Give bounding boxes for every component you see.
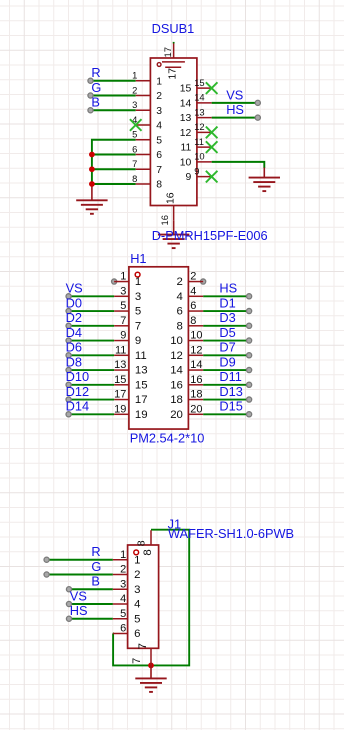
svg-text:7: 7 <box>131 658 143 664</box>
svg-text:16: 16 <box>190 374 202 386</box>
svg-text:14: 14 <box>180 98 192 109</box>
svg-text:10: 10 <box>194 151 204 162</box>
svg-text:D10: D10 <box>66 369 89 384</box>
svg-text:3: 3 <box>135 291 141 303</box>
svg-text:D11: D11 <box>219 369 242 384</box>
svg-text:1: 1 <box>132 70 137 81</box>
svg-text:14: 14 <box>194 92 204 103</box>
svg-text:17: 17 <box>114 389 126 401</box>
svg-text:3: 3 <box>134 584 140 596</box>
svg-text:D12: D12 <box>66 384 89 399</box>
svg-text:6: 6 <box>156 150 162 161</box>
svg-text:14: 14 <box>170 365 183 377</box>
svg-text:16: 16 <box>170 379 183 391</box>
svg-text:10: 10 <box>190 330 202 342</box>
svg-text:9: 9 <box>186 172 192 183</box>
svg-text:10: 10 <box>170 335 183 347</box>
svg-text:8: 8 <box>132 173 137 184</box>
svg-text:6: 6 <box>120 623 126 635</box>
svg-text:R: R <box>91 65 100 80</box>
svg-text:16: 16 <box>166 192 177 204</box>
svg-text:17: 17 <box>167 68 178 80</box>
svg-text:PM2.54-2*10: PM2.54-2*10 <box>130 431 205 446</box>
svg-text:D13: D13 <box>219 384 242 399</box>
svg-text:4: 4 <box>120 593 126 605</box>
svg-text:12: 12 <box>170 350 183 362</box>
svg-text:8: 8 <box>136 540 148 546</box>
svg-text:6: 6 <box>190 300 196 312</box>
svg-text:G: G <box>91 559 101 574</box>
svg-text:5: 5 <box>120 300 126 312</box>
svg-text:1: 1 <box>135 276 141 288</box>
svg-text:8: 8 <box>177 320 183 332</box>
svg-text:D8: D8 <box>66 354 82 369</box>
svg-text:2: 2 <box>120 564 126 576</box>
svg-text:D15: D15 <box>219 399 242 414</box>
svg-text:HS: HS <box>70 603 88 618</box>
svg-text:2: 2 <box>156 91 162 102</box>
svg-text:6: 6 <box>132 143 137 154</box>
svg-text:19: 19 <box>114 403 126 415</box>
svg-text:5: 5 <box>156 135 162 146</box>
svg-text:7: 7 <box>132 158 137 169</box>
svg-text:20: 20 <box>170 409 183 421</box>
svg-text:11: 11 <box>194 136 204 147</box>
svg-text:D1: D1 <box>219 295 235 310</box>
svg-text:5: 5 <box>120 608 126 620</box>
svg-text:HS: HS <box>226 102 244 117</box>
svg-text:2: 2 <box>134 569 140 581</box>
svg-text:17: 17 <box>162 47 173 57</box>
svg-text:15: 15 <box>180 84 192 95</box>
svg-text:G: G <box>91 80 101 95</box>
svg-text:3: 3 <box>132 99 137 110</box>
svg-text:B: B <box>91 95 100 110</box>
svg-text:11: 11 <box>181 143 192 154</box>
svg-text:7: 7 <box>120 315 126 327</box>
svg-text:13: 13 <box>135 365 148 377</box>
svg-text:15: 15 <box>135 379 148 391</box>
svg-text:10: 10 <box>180 157 192 168</box>
svg-text:14: 14 <box>190 359 202 371</box>
svg-text:6: 6 <box>134 628 140 640</box>
svg-text:15: 15 <box>194 77 204 88</box>
svg-text:7: 7 <box>137 643 149 649</box>
svg-text:8: 8 <box>156 180 162 191</box>
svg-text:1: 1 <box>156 76 162 87</box>
svg-text:D-PMRH15PF-E006: D-PMRH15PF-E006 <box>152 228 268 243</box>
svg-text:8: 8 <box>190 315 196 327</box>
svg-text:D9: D9 <box>219 354 235 369</box>
svg-text:2: 2 <box>190 271 196 283</box>
svg-text:19: 19 <box>135 409 148 421</box>
svg-text:17: 17 <box>135 394 148 406</box>
svg-text:7: 7 <box>156 165 162 176</box>
svg-text:4: 4 <box>156 121 162 132</box>
svg-text:18: 18 <box>190 389 202 401</box>
svg-text:11: 11 <box>135 350 147 362</box>
svg-text:D3: D3 <box>219 310 235 325</box>
svg-text:VS: VS <box>226 87 243 102</box>
svg-text:7: 7 <box>135 320 141 332</box>
svg-text:6: 6 <box>177 306 183 318</box>
svg-text:3: 3 <box>120 578 126 590</box>
svg-text:2: 2 <box>177 276 183 288</box>
svg-text:D7: D7 <box>219 340 235 355</box>
svg-text:9: 9 <box>135 335 141 347</box>
svg-text:9: 9 <box>194 165 199 176</box>
svg-text:VS: VS <box>70 588 87 603</box>
svg-text:5: 5 <box>135 306 141 318</box>
svg-text:2: 2 <box>132 84 137 95</box>
svg-text:13: 13 <box>180 113 192 124</box>
svg-text:12: 12 <box>194 121 204 132</box>
svg-text:WAFER-SH1.0-6PWB: WAFER-SH1.0-6PWB <box>168 526 294 541</box>
svg-text:13: 13 <box>114 359 126 371</box>
svg-text:H1: H1 <box>130 251 146 266</box>
svg-text:D14: D14 <box>66 399 89 414</box>
svg-text:15: 15 <box>114 374 126 386</box>
svg-text:12: 12 <box>190 344 202 356</box>
svg-text:VS: VS <box>66 281 83 296</box>
svg-text:4: 4 <box>134 599 140 611</box>
svg-text:18: 18 <box>170 394 183 406</box>
svg-text:1: 1 <box>120 271 126 283</box>
svg-text:R: R <box>91 544 100 559</box>
svg-text:9: 9 <box>120 330 126 342</box>
svg-text:4: 4 <box>190 285 196 297</box>
svg-text:16: 16 <box>159 215 170 225</box>
svg-text:3: 3 <box>156 106 162 117</box>
svg-text:D4: D4 <box>66 325 82 340</box>
svg-text:DSUB1: DSUB1 <box>152 21 195 36</box>
svg-text:12: 12 <box>180 128 192 139</box>
svg-text:D5: D5 <box>219 325 235 340</box>
svg-text:D0: D0 <box>66 295 82 310</box>
svg-text:8: 8 <box>142 549 154 555</box>
svg-text:20: 20 <box>190 403 202 415</box>
svg-text:3: 3 <box>120 285 126 297</box>
svg-text:5: 5 <box>134 613 140 625</box>
svg-text:D2: D2 <box>66 310 82 325</box>
svg-text:13: 13 <box>194 106 204 117</box>
svg-text:HS: HS <box>219 281 237 296</box>
svg-text:11: 11 <box>115 344 126 356</box>
svg-text:5: 5 <box>132 129 137 140</box>
svg-text:1: 1 <box>120 549 126 561</box>
svg-text:1: 1 <box>134 554 140 566</box>
svg-text:B: B <box>91 574 100 589</box>
svg-text:4: 4 <box>177 291 183 303</box>
svg-text:D6: D6 <box>66 340 82 355</box>
